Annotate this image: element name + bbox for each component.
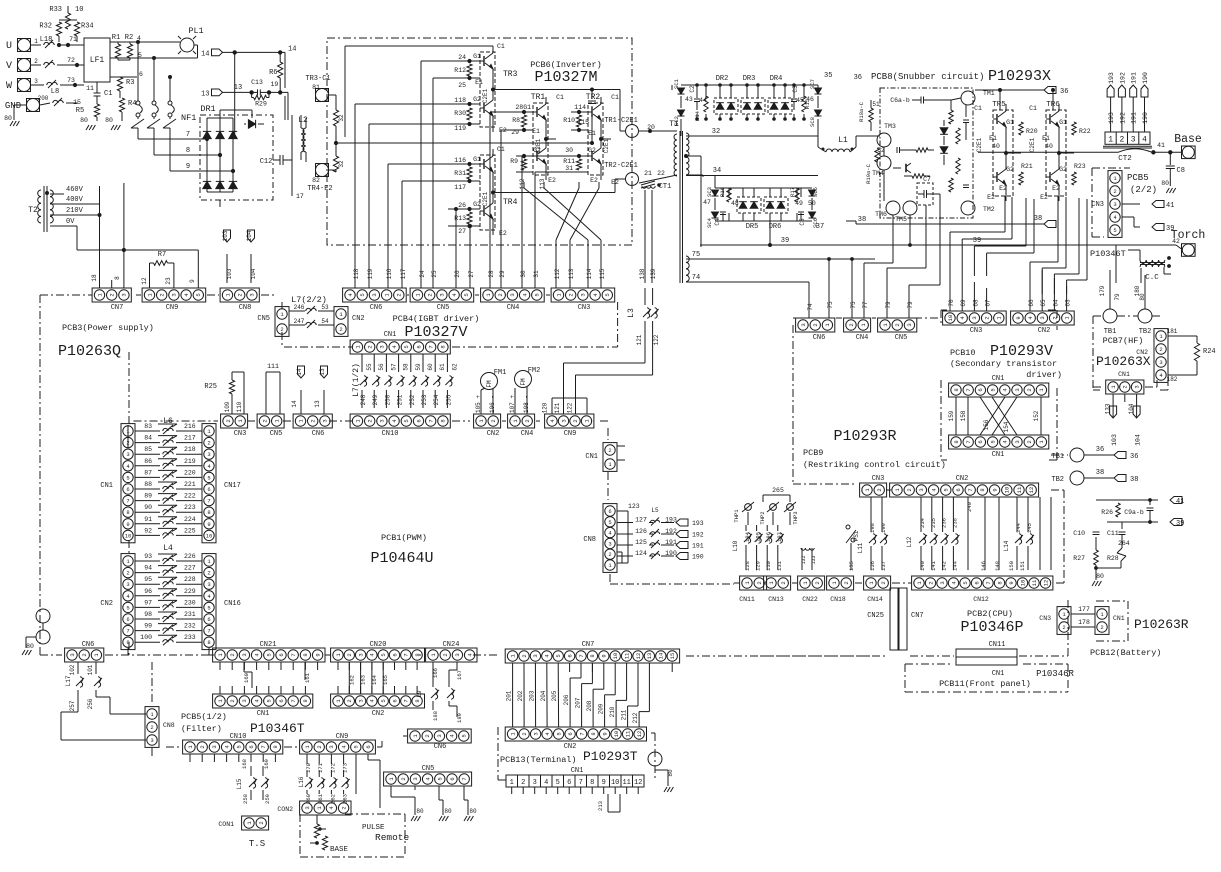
svg-text:23: 23 — [165, 277, 172, 285]
svg-text:171: 171 — [317, 762, 324, 773]
svg-text:82: 82 — [312, 177, 320, 184]
svg-text:L15: L15 — [236, 778, 243, 789]
PCB9 bottom connectors — [740, 576, 767, 590]
svg-text:PCB7(HF): PCB7(HF) — [1103, 336, 1144, 346]
svg-text:CN10: CN10 — [230, 733, 247, 741]
svg-text:TR5: TR5 — [992, 101, 1006, 109]
svg-text:89: 89 — [144, 493, 152, 500]
rectifier rail top — [671, 85, 673, 90]
svg-text:6: 6 — [126, 486, 129, 493]
svg-text:210V: 210V — [66, 207, 84, 215]
svg-text:P10263X: P10263X — [1096, 354, 1151, 369]
svg-text:PCB3(Power supply): PCB3(Power supply) — [62, 323, 154, 333]
svg-text:3: 3 — [800, 323, 807, 326]
terminal V — [18, 59, 31, 72]
capacitor PCB6 — [591, 90, 593, 100]
flag 14 CN6 — [298, 366, 305, 378]
svg-text:C2E1: C2E1 — [976, 137, 983, 152]
svg-text:204: 204 — [540, 690, 547, 701]
wires 70-67 up — [949, 270, 951, 311]
svg-text:CN7: CN7 — [582, 641, 595, 649]
svg-text:5: 5 — [380, 699, 387, 702]
terminal W — [18, 79, 31, 92]
svg-text:110: 110 — [236, 401, 243, 412]
svg-text:R29: R29 — [255, 101, 267, 108]
svg-text:6: 6 — [126, 616, 129, 623]
svg-text:8: 8 — [207, 509, 210, 516]
svg-text:6: 6 — [278, 699, 285, 702]
svg-text:193: 193 — [692, 520, 704, 527]
svg-text:R17: R17 — [789, 187, 796, 197]
connector CN2 PCB1 — [474, 414, 501, 428]
svg-text:91: 91 — [144, 516, 152, 523]
svg-text:58: 58 — [403, 363, 410, 371]
svg-text:FM: FM — [486, 380, 493, 388]
svg-text:104: 104 — [1135, 434, 1142, 446]
svg-text:32: 32 — [338, 114, 345, 122]
connector CN5 bottomleft — [384, 772, 472, 786]
svg-text:6: 6 — [248, 745, 255, 748]
svg-text:2: 2 — [261, 419, 268, 422]
svg-text:NF1: NF1 — [181, 113, 196, 123]
svg-text:102: 102 — [69, 664, 76, 675]
svg-text:TM2: TM2 — [983, 206, 995, 213]
svg-text:2: 2 — [521, 654, 528, 657]
svg-text:DR2: DR2 — [716, 75, 729, 83]
wire R7 loop — [149, 263, 151, 288]
svg-text:5: 5 — [207, 474, 210, 481]
connector CN3 PCB5 vertical — [1108, 171, 1122, 238]
svg-text:79: 79 — [885, 301, 892, 309]
svg-text:3: 3 — [322, 419, 329, 422]
svg-text:C5: C5 — [799, 218, 806, 226]
svg-text:3: 3 — [69, 653, 76, 656]
svg-text:CN21: CN21 — [260, 641, 277, 649]
svg-text:114: 114 — [574, 104, 586, 111]
svg-text:TB1: TB1 — [1104, 328, 1117, 336]
svg-text:38: 38 — [1034, 215, 1042, 223]
svg-text:182: 182 — [1167, 376, 1178, 383]
svg-text:C2E1: C2E1 — [1029, 137, 1036, 152]
svg-text:36: 36 — [1060, 88, 1068, 96]
svg-text:2: 2 — [396, 293, 403, 296]
svg-text:CN2: CN2 — [372, 710, 385, 718]
rectifier wires top — [681, 84, 818, 86]
svg-text:R6: R6 — [269, 69, 277, 77]
svg-text:15: 15 — [669, 653, 676, 660]
svg-text:TM5: TM5 — [895, 216, 907, 223]
svg-text:169: 169 — [263, 759, 270, 769]
svg-text:SC8: SC8 — [809, 117, 816, 127]
IGBT module TR4 — [480, 155, 495, 230]
svg-text:2: 2 — [521, 779, 525, 787]
svg-text:6: 6 — [207, 486, 210, 493]
svg-text:R18a-C: R18a-C — [858, 101, 865, 122]
svg-text:CN8: CN8 — [239, 304, 252, 312]
svg-text:8: 8 — [186, 147, 190, 155]
svg-text:100: 100 — [140, 634, 152, 641]
svg-text:221: 221 — [184, 481, 196, 488]
Remote box — [299, 814, 301, 857]
wire — [110, 41, 180, 43]
svg-text:PL1: PL1 — [188, 26, 203, 36]
svg-text:R34: R34 — [81, 23, 94, 31]
thermostat THP1 — [745, 504, 752, 511]
wire 32 — [686, 135, 818, 137]
svg-text:251: 251 — [397, 394, 404, 405]
svg-text:2: 2 — [150, 724, 153, 731]
svg-text:21: 21 — [644, 170, 652, 177]
svg-text:2: 2 — [339, 326, 342, 333]
svg-text:2: 2 — [199, 745, 206, 748]
svg-text:R19a-C: R19a-C — [865, 163, 872, 184]
IGBT module TR5 — [993, 110, 1013, 196]
svg-text:CN9: CN9 — [166, 304, 179, 312]
svg-text:259: 259 — [264, 794, 271, 804]
svg-text:CN22: CN22 — [802, 596, 818, 603]
svg-text:14: 14 — [291, 400, 298, 408]
svg-text:DR1: DR1 — [200, 104, 215, 114]
svg-text:7: 7 — [290, 699, 297, 702]
svg-text:2: 2 — [497, 293, 504, 296]
svg-text:5: 5 — [353, 745, 360, 748]
svg-text:5: 5 — [1113, 227, 1116, 234]
connector CN2 L7(2/2) — [334, 307, 348, 337]
svg-text:3: 3 — [379, 419, 386, 422]
svg-text:43: 43 — [685, 96, 693, 103]
svg-text:30: 30 — [520, 270, 527, 278]
connector CN6 bottom-left — [65, 648, 104, 662]
snubber resistors right — [949, 110, 953, 124]
svg-text:218: 218 — [184, 446, 196, 453]
svg-text:57: 57 — [390, 363, 397, 371]
svg-text:249: 249 — [372, 394, 379, 405]
svg-text:7: 7 — [207, 628, 210, 635]
svg-text:R12: R12 — [454, 67, 466, 74]
svg-text:CN5: CN5 — [422, 765, 435, 773]
svg-text:5: 5 — [534, 293, 541, 296]
svg-text:9: 9 — [1015, 316, 1022, 319]
svg-text:190: 190 — [692, 554, 704, 561]
svg-text:P10263Q: P10263Q — [58, 343, 121, 360]
connector CN17 vertical — [202, 424, 216, 543]
wire 41 Base — [1153, 151, 1181, 153]
svg-text:163: 163 — [360, 675, 367, 685]
terminal TR4-E2 — [316, 164, 329, 177]
svg-text:2: 2 — [780, 581, 787, 584]
svg-text:5: 5 — [236, 745, 243, 748]
svg-text:30: 30 — [565, 147, 573, 154]
svg-text:142: 142 — [941, 561, 948, 571]
svg-text:257: 257 — [69, 700, 76, 711]
svg-text:119: 119 — [454, 125, 466, 132]
svg-text:85: 85 — [144, 446, 152, 453]
svg-text:123: 123 — [628, 503, 640, 510]
svg-text:3: 3 — [939, 581, 946, 584]
svg-text:75: 75 — [692, 251, 700, 259]
svg-text:2: 2 — [34, 58, 38, 65]
svg-text:193: 193 — [1108, 72, 1115, 84]
svg-text:229: 229 — [184, 588, 196, 595]
svg-text:L5: L5 — [651, 507, 659, 514]
snubber TM1 — [961, 91, 975, 105]
svg-text:2: 2 — [229, 653, 236, 656]
svg-text:2: 2 — [880, 581, 887, 584]
svg-text:146: 146 — [980, 561, 987, 571]
svg-text:(2/2): (2/2) — [1130, 185, 1157, 195]
svg-text:3: 3 — [436, 734, 443, 737]
svg-text:DR6: DR6 — [769, 223, 782, 231]
svg-text:14: 14 — [201, 50, 209, 58]
svg-text:2: 2 — [340, 806, 347, 809]
svg-text:208: 208 — [586, 700, 593, 711]
svg-text:18: 18 — [91, 274, 98, 282]
svg-text:103: 103 — [222, 230, 229, 241]
connector CN3 PCB10 — [943, 311, 1007, 325]
svg-text:63: 63 — [1065, 299, 1072, 307]
svg-text:250: 250 — [384, 394, 391, 405]
svg-text:CN3: CN3 — [970, 327, 983, 335]
svg-text:9: 9 — [189, 279, 196, 283]
svg-text:2: 2 — [346, 653, 353, 656]
IGBT module TR1 — [533, 103, 548, 175]
svg-text:5: 5 — [126, 604, 129, 611]
svg-text:6: 6 — [567, 779, 571, 787]
svg-text:CN2: CN2 — [956, 475, 969, 483]
svg-text:12: 12 — [635, 653, 642, 660]
svg-text:103: 103 — [226, 268, 233, 279]
svg-text:2: 2 — [1159, 346, 1162, 353]
svg-text:7: 7 — [186, 131, 190, 139]
solenoid SOL1 — [801, 548, 805, 550]
svg-text:8: 8 — [953, 440, 960, 443]
svg-text:10: 10 — [947, 315, 954, 322]
svg-text:3: 3 — [126, 451, 129, 458]
svg-text:69: 69 — [960, 299, 967, 307]
wire 160 161 — [243, 662, 245, 672]
svg-text:8: 8 — [302, 699, 309, 702]
svg-text:CON2: CON2 — [277, 806, 293, 813]
svg-text:L6: L6 — [163, 417, 173, 426]
svg-text:188: 188 — [432, 711, 439, 721]
svg-text:12: 12 — [1028, 487, 1035, 494]
svg-text:P10346P: P10346P — [960, 619, 1023, 636]
wire 14 — [223, 51, 286, 53]
svg-text:THP3: THP3 — [792, 511, 799, 524]
connector CN3 PCB4 — [551, 288, 615, 302]
svg-text:200: 200 — [38, 95, 49, 102]
pressure switch PS1 — [846, 525, 850, 529]
svg-text:17: 17 — [296, 193, 304, 200]
svg-text:104: 104 — [1128, 403, 1135, 414]
svg-text:C2: C2 — [689, 85, 696, 93]
svg-text:5: 5 — [608, 519, 611, 526]
svg-text:3: 3 — [171, 293, 178, 296]
PCB4 boundary — [617, 302, 619, 347]
svg-text:137: 137 — [880, 561, 887, 571]
svg-text:E1: E1 — [989, 135, 997, 142]
svg-text:5: 5 — [555, 654, 562, 657]
svg-text:2: 2 — [983, 316, 990, 319]
svg-text:L14: L14 — [1003, 540, 1010, 551]
crossover wires — [955, 397, 957, 435]
junction dots — [57, 43, 60, 46]
junction dots misc — [137, 41, 140, 44]
svg-text:V: V — [6, 61, 12, 72]
svg-text:5: 5 — [437, 777, 444, 780]
svg-text:6: 6 — [449, 777, 456, 780]
svg-text:2: 2 — [814, 581, 821, 584]
svg-text:3: 3 — [1133, 385, 1140, 388]
capacitor C8 — [1169, 152, 1171, 165]
svg-text:217: 217 — [184, 435, 196, 442]
svg-text:CN1: CN1 — [992, 670, 1005, 678]
svg-text:190: 190 — [1142, 112, 1149, 124]
flag 36 top — [975, 89, 1044, 91]
wire — [329, 94, 336, 96]
svg-text:R24: R24 — [1203, 348, 1216, 356]
svg-text:38: 38 — [858, 216, 866, 224]
resistor snubber mid — [912, 174, 924, 178]
svg-text:81: 81 — [312, 84, 320, 91]
svg-text:177: 177 — [1078, 606, 1090, 613]
svg-text:C1: C1 — [104, 90, 112, 98]
svg-text:109: 109 — [224, 401, 231, 412]
resistor R17 — [795, 188, 799, 202]
wire tap mid — [686, 155, 701, 157]
svg-text:CN1: CN1 — [992, 451, 1005, 459]
svg-text:53: 53 — [321, 304, 329, 311]
diodes DR1 bottom — [203, 181, 211, 188]
svg-text:191: 191 — [1131, 72, 1138, 84]
svg-text:3: 3 — [412, 777, 419, 780]
svg-text:5: 5 — [403, 419, 410, 422]
svg-text:8: 8 — [440, 419, 447, 422]
svg-text:CN12: CN12 — [973, 596, 989, 603]
svg-text:7: 7 — [207, 498, 210, 505]
grounds below CN5 — [390, 786, 392, 797]
svg-text:160: 160 — [243, 673, 250, 683]
svg-text:L11: L11 — [857, 542, 864, 553]
svg-text:CN7: CN7 — [911, 612, 924, 620]
svg-text:41: 41 — [1166, 202, 1174, 210]
svg-text:223: 223 — [184, 504, 196, 511]
svg-text:R7: R7 — [158, 251, 166, 259]
svg-text:5: 5 — [138, 52, 142, 59]
svg-text:26: 26 — [454, 270, 461, 278]
connector CON1 — [242, 816, 269, 830]
svg-text:233: 233 — [184, 634, 196, 641]
connector CN1 PCB4 — [350, 340, 450, 354]
flag 13 — [212, 89, 223, 96]
svg-text:7: 7 — [290, 653, 297, 656]
svg-text:8: 8 — [996, 581, 1003, 584]
flag 104 — [248, 230, 255, 242]
svg-text:Base: Base — [1174, 133, 1202, 146]
svg-text:8: 8 — [979, 488, 986, 491]
CN7-CN2 wires 201-205 — [512, 663, 514, 727]
svg-text:FM2: FM2 — [528, 367, 541, 375]
svg-text:5: 5 — [989, 388, 996, 391]
battery box — [1096, 600, 1128, 602]
svg-text:TR1-C2E1: TR1-C2E1 — [604, 117, 638, 125]
snubber TM2 — [961, 201, 975, 215]
svg-text:P10293X: P10293X — [988, 68, 1051, 85]
svg-text:2: 2 — [1119, 136, 1124, 145]
svg-text:72: 72 — [67, 57, 75, 64]
svg-text:13: 13 — [314, 400, 321, 408]
svg-text:E1: E1 — [1042, 135, 1050, 142]
svg-text:9: 9 — [186, 163, 190, 171]
svg-text:CN2: CN2 — [100, 600, 113, 608]
svg-text:CN3: CN3 — [578, 304, 591, 312]
svg-text:211: 211 — [621, 709, 628, 720]
svg-text:24: 24 — [458, 54, 466, 61]
wire 75 to CN6 — [828, 259, 830, 318]
svg-text:199: 199 — [880, 523, 887, 533]
PCB8 boundary — [880, 88, 973, 218]
svg-text:216: 216 — [184, 423, 196, 430]
svg-text:2: 2 — [927, 581, 934, 584]
svg-text:L8: L8 — [51, 88, 59, 96]
svg-text:2: 2 — [400, 777, 407, 780]
svg-text:TR2: TR2 — [586, 93, 601, 102]
svg-text:PS1: PS1 — [853, 530, 860, 541]
svg-text:9: 9 — [991, 488, 998, 491]
svg-text:6: 6 — [278, 653, 285, 656]
svg-text:1: 1 — [510, 779, 514, 787]
TR3 output bus — [495, 89, 620, 91]
wire 75 77 to CN4 — [851, 259, 853, 318]
svg-text:2: 2 — [1026, 440, 1033, 443]
svg-text:R32: R32 — [39, 23, 52, 31]
svg-text:226: 226 — [184, 553, 196, 560]
svg-text:P10293R: P10293R — [833, 428, 896, 445]
svg-text:27: 27 — [468, 270, 475, 278]
svg-text:2: 2 — [568, 293, 575, 296]
CN7-CN2 staircase wires 206-212 — [580, 663, 582, 678]
svg-text:4: 4 — [544, 779, 548, 787]
connector CN9 filter — [300, 740, 376, 754]
svg-text:R26: R26 — [1101, 509, 1113, 516]
svg-text:C6a-b: C6a-b — [890, 97, 910, 104]
svg-text:CN1: CN1 — [1113, 615, 1125, 622]
svg-text:CN5: CN5 — [257, 315, 270, 323]
connector CN9 — [142, 288, 206, 302]
svg-text:C.C: C.C — [1145, 274, 1159, 282]
battery connector CN1 — [1095, 607, 1109, 635]
resistor R34 — [74, 22, 79, 36]
svg-text:TM1: TM1 — [983, 90, 995, 97]
svg-text:126: 126 — [635, 528, 647, 535]
svg-text:CN5: CN5 — [270, 430, 283, 438]
PCB boundary bottom — [40, 654, 62, 656]
svg-text:Remote: Remote — [375, 832, 410, 843]
svg-text:161: 161 — [304, 672, 311, 683]
wire — [137, 42, 139, 101]
svg-text:39: 39 — [973, 237, 981, 245]
svg-text:3: 3 — [1131, 136, 1136, 145]
svg-text:9: 9 — [601, 732, 608, 735]
svg-text:129: 129 — [755, 561, 762, 571]
svg-text:2: 2 — [521, 732, 528, 735]
svg-text:CN2: CN2 — [352, 315, 365, 323]
connector CN3 PCB9 — [860, 483, 887, 497]
svg-text:G1: G1 — [473, 156, 481, 163]
svg-text:115: 115 — [577, 119, 589, 126]
svg-text:CN1: CN1 — [100, 482, 113, 490]
svg-text:246: 246 — [294, 304, 305, 311]
